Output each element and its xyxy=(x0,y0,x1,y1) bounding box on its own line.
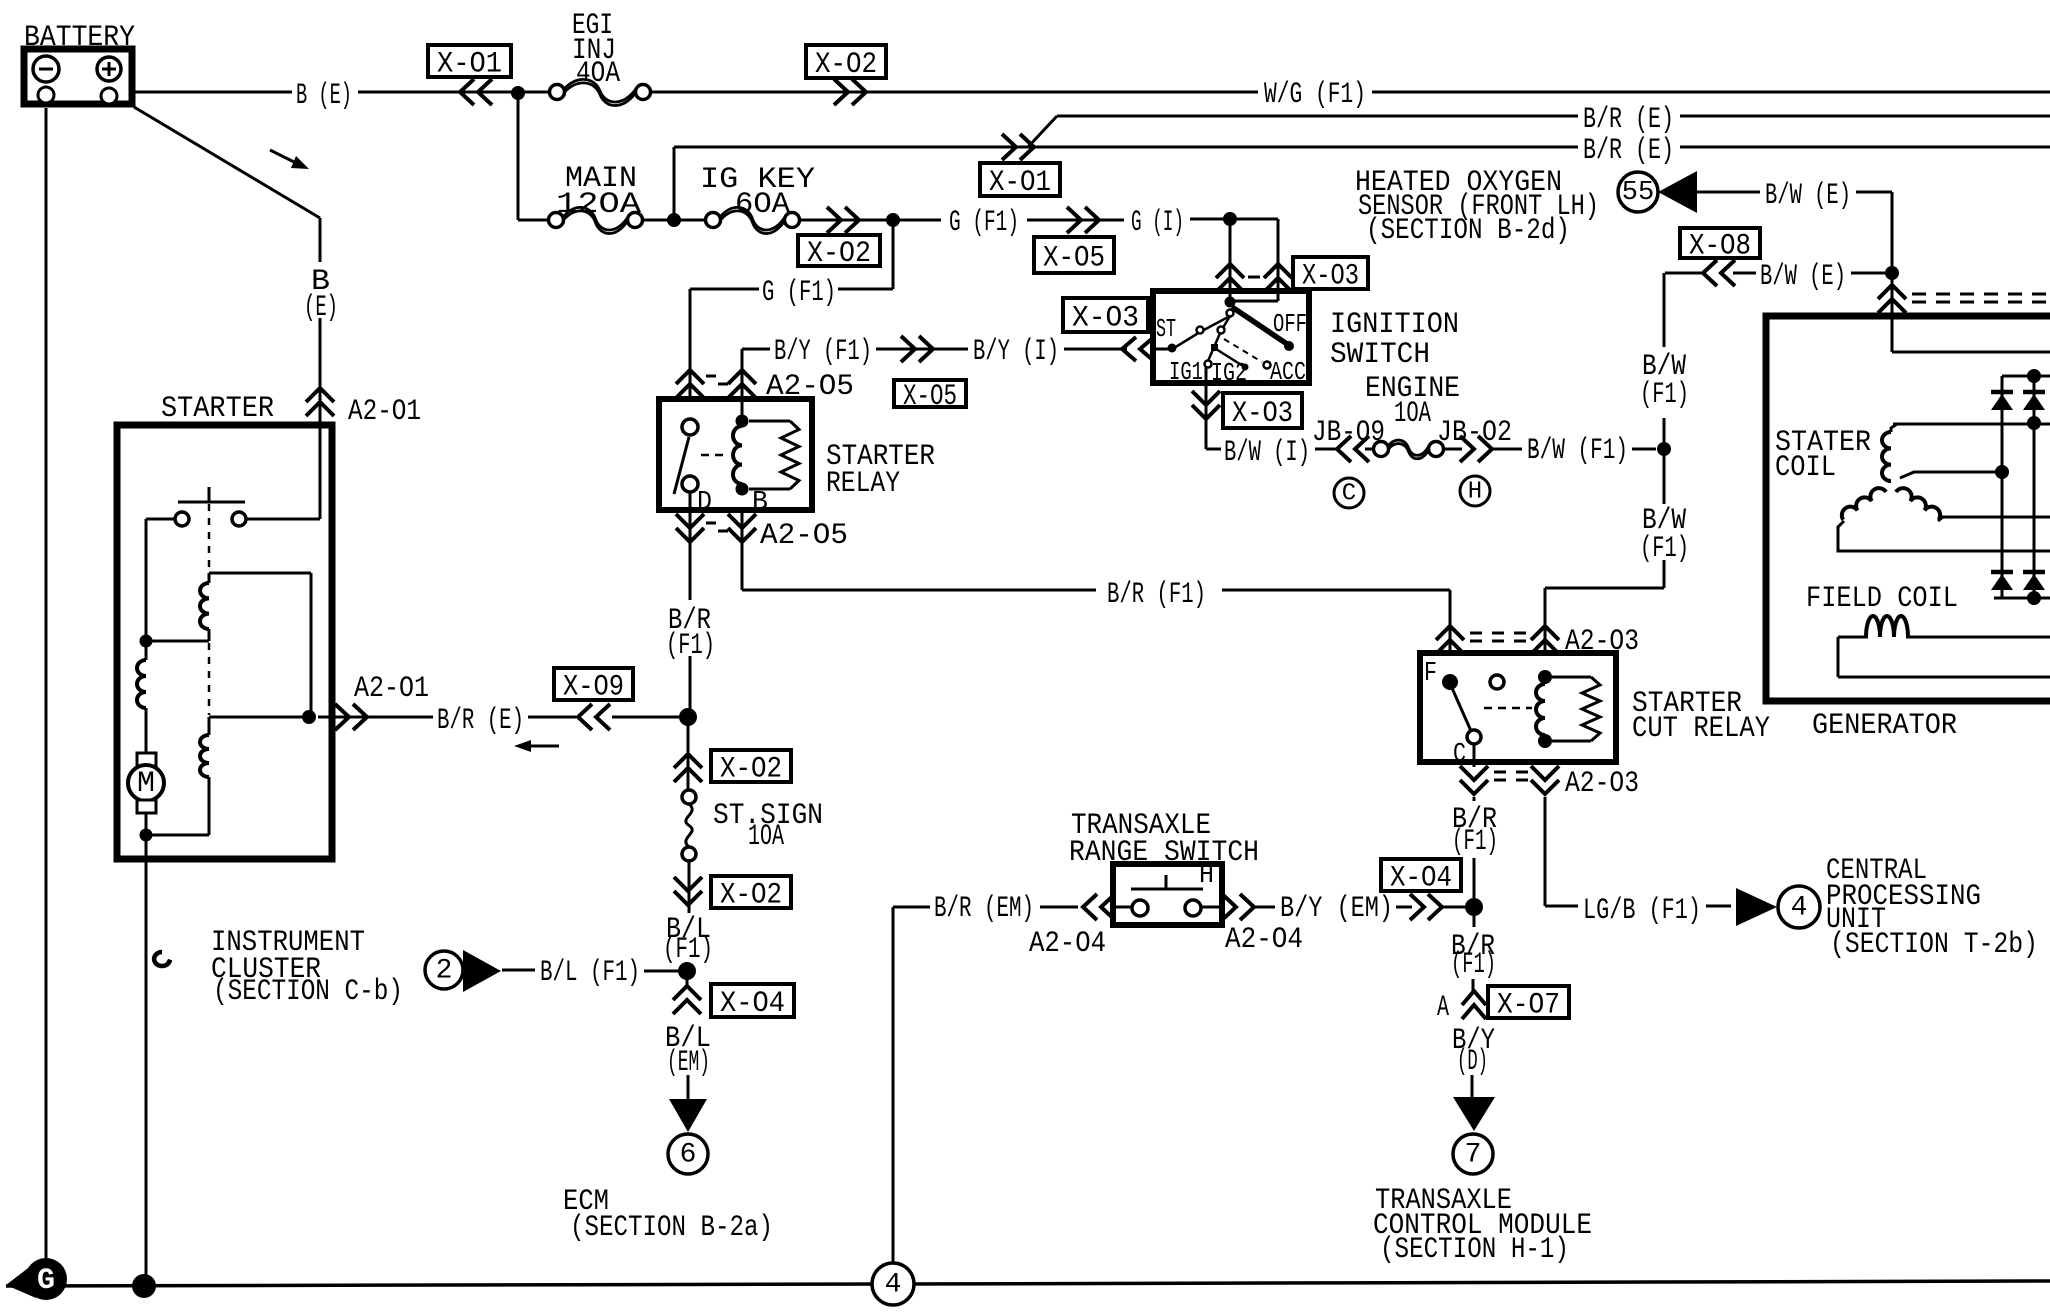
svg-text:B/L (F1): B/L (F1) xyxy=(540,956,640,990)
svg-text:X-O4: X-O4 xyxy=(1390,862,1452,896)
svg-text:BATTERY: BATTERY xyxy=(24,21,135,55)
svg-text:(SECTION T-2b): (SECTION T-2b) xyxy=(1830,928,2038,962)
svg-text:B/R (E): B/R (E) xyxy=(1583,103,1674,137)
svg-text:C: C xyxy=(1342,481,1356,508)
svg-text:B/Y (F1): B/Y (F1) xyxy=(774,335,872,369)
svg-text:X-O3: X-O3 xyxy=(1072,302,1139,336)
svg-text:(F1): (F1) xyxy=(1451,948,1496,982)
svg-text:B (E): B (E) xyxy=(296,79,352,113)
svg-text:(F1): (F1) xyxy=(1640,378,1689,412)
svg-text:(F1): (F1) xyxy=(666,629,715,663)
svg-text:W/G (F1): W/G (F1) xyxy=(1264,78,1366,112)
svg-text:7: 7 xyxy=(1465,1140,1482,1171)
svg-text:D: D xyxy=(697,488,712,518)
svg-text:M: M xyxy=(137,767,155,801)
svg-text:GENERATOR: GENERATOR xyxy=(1812,709,1957,743)
svg-text:F: F xyxy=(1424,659,1437,689)
svg-text:B/R (E): B/R (E) xyxy=(1583,134,1674,168)
svg-text:B/Y (EM): B/Y (EM) xyxy=(1280,892,1393,926)
svg-text:6OA: 6OA xyxy=(735,188,790,222)
svg-text:(SECTION C-b): (SECTION C-b) xyxy=(213,975,403,1009)
svg-text:A: A xyxy=(1437,991,1449,1025)
svg-text:12OA: 12OA xyxy=(556,188,641,222)
svg-text:A2-O4: A2-O4 xyxy=(1225,923,1303,957)
svg-text:A2-O4: A2-O4 xyxy=(1029,927,1106,961)
svg-text:B/R (E): B/R (E) xyxy=(437,704,524,738)
svg-text:X-O2: X-O2 xyxy=(720,879,782,913)
svg-text:(EM): (EM) xyxy=(667,1046,710,1080)
svg-text:X-O4: X-O4 xyxy=(720,987,785,1021)
svg-text:4: 4 xyxy=(1791,893,1808,924)
svg-text:G (F1): G (F1) xyxy=(762,276,836,310)
svg-text:X-O5: X-O5 xyxy=(1043,242,1105,276)
svg-text:A2-O5: A2-O5 xyxy=(760,519,848,553)
svg-text:SWITCH: SWITCH xyxy=(1330,338,1430,372)
svg-text:4: 4 xyxy=(885,1270,902,1301)
svg-text:IG1: IG1 xyxy=(1169,357,1203,387)
svg-text:STARTER: STARTER xyxy=(161,392,274,426)
svg-text:(F1): (F1) xyxy=(663,933,713,967)
svg-text:G (I): G (I) xyxy=(1131,206,1184,240)
svg-text:X-O2: X-O2 xyxy=(807,237,871,271)
svg-text:IGNITION: IGNITION xyxy=(1330,308,1459,342)
svg-text:H: H xyxy=(1468,479,1482,506)
svg-text:B/R (F1): B/R (F1) xyxy=(1107,578,1206,612)
svg-text:X-O1: X-O1 xyxy=(989,166,1051,200)
svg-text:G: G xyxy=(37,1264,55,1298)
svg-text:X-O1: X-O1 xyxy=(437,48,502,82)
svg-text:1OA: 1OA xyxy=(1394,397,1431,431)
svg-text:FIELD COIL: FIELD COIL xyxy=(1806,582,1958,616)
svg-text:COIL: COIL xyxy=(1775,451,1836,485)
svg-text:A2-O3: A2-O3 xyxy=(1565,767,1639,801)
svg-text:ACC: ACC xyxy=(1270,357,1306,387)
svg-text:RELAY: RELAY xyxy=(826,467,900,501)
svg-text:X-O8: X-O8 xyxy=(1689,230,1751,264)
svg-text:B/W (I): B/W (I) xyxy=(1224,436,1310,470)
svg-text:(SECTION H-1): (SECTION H-1) xyxy=(1380,1233,1569,1267)
svg-text:B/W (E): B/W (E) xyxy=(1765,179,1851,213)
svg-text:(D): (D) xyxy=(1457,1045,1488,1079)
svg-text:OFF: OFF xyxy=(1273,309,1307,339)
svg-text:B/W (E): B/W (E) xyxy=(1760,260,1846,294)
svg-text:4OA: 4OA xyxy=(576,57,620,91)
svg-text:A2-O1: A2-O1 xyxy=(354,672,429,706)
svg-text:G (F1): G (F1) xyxy=(949,206,1019,240)
svg-text:(SECTION B-2d): (SECTION B-2d) xyxy=(1366,214,1570,248)
svg-text:H: H xyxy=(1199,860,1214,890)
svg-text:B/R (EM): B/R (EM) xyxy=(934,892,1034,926)
svg-text:X-O9: X-O9 xyxy=(563,671,624,705)
svg-text:2: 2 xyxy=(436,956,453,987)
svg-text:B/Y (I): B/Y (I) xyxy=(973,335,1059,369)
svg-text:JB-O9: JB-O9 xyxy=(1312,416,1385,450)
svg-text:JB-O2: JB-O2 xyxy=(1437,416,1512,450)
svg-text:(F1): (F1) xyxy=(1452,825,1498,859)
svg-text:C: C xyxy=(1453,740,1466,770)
svg-text:A2-O1: A2-O1 xyxy=(348,395,421,429)
svg-text:X-O7: X-O7 xyxy=(1497,989,1560,1023)
svg-text:6: 6 xyxy=(680,1140,697,1171)
svg-text:(SECTION B-2a): (SECTION B-2a) xyxy=(570,1211,773,1245)
svg-text:X-O2: X-O2 xyxy=(815,48,877,82)
svg-text:IG2: IG2 xyxy=(1211,358,1247,388)
svg-text:B/W (F1): B/W (F1) xyxy=(1527,434,1628,468)
svg-text:X-O3: X-O3 xyxy=(1232,397,1293,431)
svg-text:X-O5: X-O5 xyxy=(903,380,957,414)
svg-text:LG/B (F1): LG/B (F1) xyxy=(1583,894,1701,928)
svg-text:X-O2: X-O2 xyxy=(720,753,782,787)
svg-text:1OA: 1OA xyxy=(748,820,784,854)
svg-text:55: 55 xyxy=(1622,178,1654,208)
svg-text:CUT RELAY: CUT RELAY xyxy=(1632,712,1770,746)
svg-text:ST: ST xyxy=(1156,314,1176,344)
